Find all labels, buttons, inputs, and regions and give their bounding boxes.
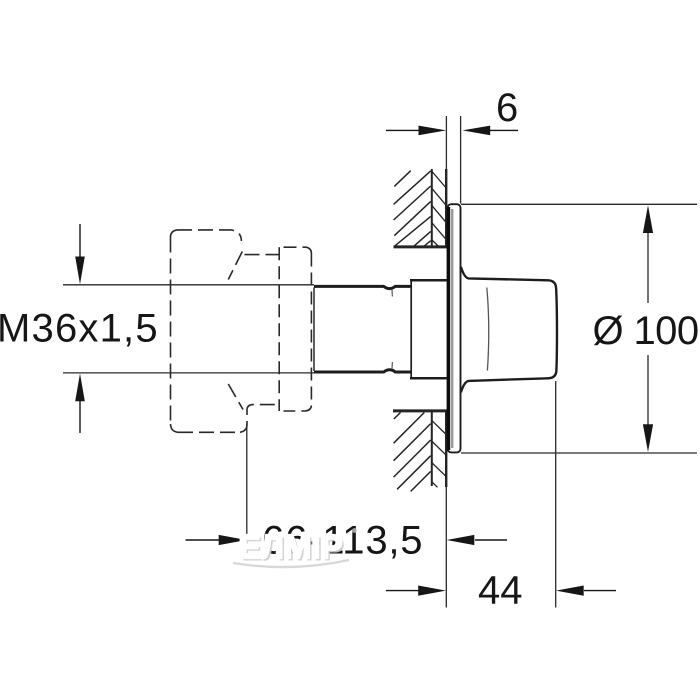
threaded sleeve top edge with thread relief notch <box>314 286 411 288</box>
dimension 6: extension lines <box>445 116 447 169</box>
dimension 6: right arrow <box>463 126 519 136</box>
thread relief tick marks <box>391 290 393 297</box>
M36 top extension line <box>63 284 314 286</box>
dimension 66-113,5: right arrow <box>447 535 507 545</box>
watermark ELMIR <box>233 528 357 568</box>
svg-text:44: 44 <box>478 569 523 613</box>
collar cylinder <box>410 280 447 378</box>
M36 arrow bottom <box>75 374 85 434</box>
cap edge / 44 right extension line <box>555 381 557 608</box>
upper wall hatching <box>394 169 448 247</box>
dashed hidden flange outline <box>279 247 311 411</box>
threaded sleeve bottom edge with thread relief notch <box>314 370 411 372</box>
escutcheon wall plate <box>448 204 461 452</box>
cap cover <box>461 267 557 393</box>
wall face / 44 left extension line <box>445 487 447 608</box>
M36 bottom extension line <box>63 372 314 374</box>
extension line from hidden body for 66-113,5 <box>246 424 248 540</box>
diameter 100: extension lines <box>461 203 697 205</box>
svg-text:M36x1,5: M36x1,5 <box>0 307 159 351</box>
svg-text:Ø 100: Ø 100 <box>593 309 699 353</box>
dashed hidden valve body outline <box>170 230 279 432</box>
dimension 44: right arrow <box>556 586 616 596</box>
dimension 66-113,5: left arrow <box>186 535 247 545</box>
cap inner curvature line <box>487 288 489 371</box>
svg-text:6: 6 <box>496 86 518 130</box>
dimension 6: left arrow <box>386 126 446 136</box>
lower wall hatching <box>393 411 448 492</box>
threaded sleeve left edge <box>313 288 315 372</box>
M36 arrow top <box>75 224 85 284</box>
dimension 44: left arrow <box>386 586 446 596</box>
svg-text:ЕЛМІР: ЕЛМІР <box>239 528 343 565</box>
diameter 100: dimension line with arrows <box>643 205 653 452</box>
